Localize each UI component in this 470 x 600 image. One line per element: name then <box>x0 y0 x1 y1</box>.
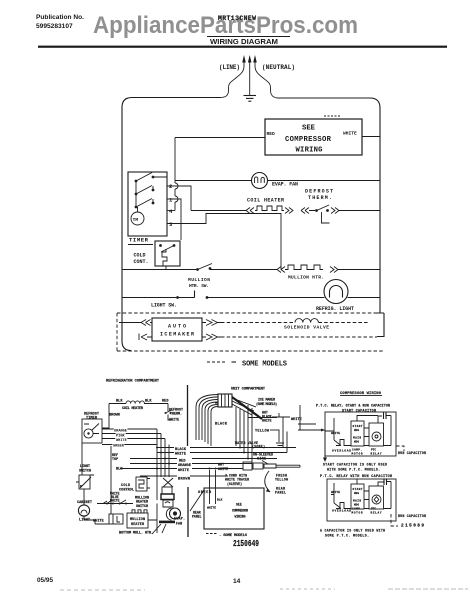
compressor box <box>265 119 362 155</box>
dashed wire to solenoid <box>221 322 294 324</box>
box2 run cap wire <box>391 514 398 526</box>
feed wire into panel <box>298 405 325 458</box>
connector out wires <box>232 398 256 464</box>
wire riser V1 with hops <box>175 138 178 211</box>
cabinet outline top/right border <box>279 98 380 313</box>
svg-text:START CAPACITOR IS ONLY USED: START CAPACITOR IS ONLY USED <box>323 462 387 466</box>
svg-text:PINK: PINK <box>116 435 125 439</box>
box1 wires <box>325 416 391 446</box>
svg-text:RED: RED <box>179 460 186 464</box>
svg-text:WDG: WDG <box>354 429 359 432</box>
mullion heater switch <box>188 264 212 290</box>
header publication number <box>36 14 84 30</box>
title overline <box>207 36 290 38</box>
lower light switch <box>76 465 94 489</box>
defrost timer box <box>82 413 102 444</box>
svg-text:REFRIG. LIGHT: REFRIG. LIGHT <box>316 306 354 312</box>
svg-text:BLK: BLK <box>145 400 152 404</box>
some-models dashed box <box>117 313 384 351</box>
terminal labels <box>169 183 173 228</box>
svg-text:2: 2 <box>169 183 173 190</box>
svg-text:EVAP.: EVAP. <box>174 518 185 522</box>
unsleeved wire note <box>253 453 273 465</box>
svg-text:WDG: WDG <box>354 441 359 444</box>
harness connector block <box>215 394 232 407</box>
svg-text:RELAY: RELAY <box>371 512 382 515</box>
box2 comp motor windings box <box>351 484 364 509</box>
svg-text:MULLION: MULLION <box>130 518 145 522</box>
timer box <box>128 172 167 236</box>
label stack red orange white <box>178 460 192 473</box>
label wire black white stack <box>262 411 272 423</box>
svg-text:WIRING: WIRING <box>235 515 246 519</box>
lower mullion heater box <box>127 510 148 528</box>
svg-text:14: 14 <box>233 578 241 585</box>
timer terminal 2 wire <box>167 186 191 211</box>
svg-text:PTC: PTC <box>371 449 376 452</box>
ground wire <box>248 55 252 95</box>
svg-text:2150649: 2150649 <box>233 539 259 549</box>
cold control box <box>155 241 180 266</box>
svg-text:TIMER: TIMER <box>129 237 149 244</box>
svg-text:COMP.: COMP. <box>352 508 362 511</box>
box1 ptc relay box <box>369 423 384 446</box>
panel title <box>340 392 382 396</box>
svg-text:COLD: COLD <box>134 253 146 259</box>
three cond note <box>225 474 249 486</box>
timer outlet wires <box>102 429 165 445</box>
line arrow L1 <box>220 55 246 98</box>
dash artifact above compressor box <box>324 115 340 117</box>
svg-text:LIGHT: LIGHT <box>79 519 91 523</box>
svg-text:CONT.: CONT. <box>134 259 149 265</box>
svg-text:THERM.: THERM. <box>308 195 332 201</box>
svg-text:ORANGE: ORANGE <box>178 464 192 468</box>
svg-text:WHITE: WHITE <box>207 507 216 510</box>
svg-text:(SOME): (SOME) <box>252 445 265 449</box>
svg-text:BLACK: BLACK <box>215 423 228 427</box>
wire white compressor to right border <box>362 136 380 138</box>
wire mesh rows <box>120 448 296 477</box>
svg-text:MULLION HTR.: MULLION HTR. <box>288 275 324 281</box>
svg-text:ICEMAKER: ICEMAKER <box>160 332 194 338</box>
box2 ptc relay box <box>369 486 384 509</box>
svg-text:P.T.C. RELAY WITH RUN CAPACITO: P.T.C. RELAY WITH RUN CAPACITOR <box>320 475 393 479</box>
box1 overload symbol <box>336 440 348 446</box>
svg-text:PTC: PTC <box>371 508 376 511</box>
svg-text:WHITE: WHITE <box>343 131 357 137</box>
svg-text:MAIN: MAIN <box>353 500 361 503</box>
box2 ptc relay label <box>371 508 382 515</box>
svg-text:MAIN: MAIN <box>353 437 361 440</box>
mullion heater resistor <box>277 265 338 281</box>
box2 wires <box>331 479 391 509</box>
svg-text:WIRE: WIRE <box>257 457 266 461</box>
svg-text:COIL HEATER: COIL HEATER <box>247 198 284 204</box>
svg-text:GREEN: GREEN <box>113 445 124 449</box>
svg-text:WHITE: WHITE <box>178 469 190 473</box>
note under box2 <box>320 528 385 537</box>
svg-text:COMPRESSOR: COMPRESSOR <box>232 509 248 513</box>
lower evap fan housing <box>161 478 174 507</box>
mullion heater row wire <box>122 269 380 271</box>
lower mullion heater switch <box>97 496 149 508</box>
label stack wht white <box>218 464 228 473</box>
harness black diagonal <box>232 397 262 419</box>
timer underline <box>128 244 153 246</box>
svg-text:THERM.: THERM. <box>170 413 182 417</box>
svg-text:WHITE: WHITE <box>116 439 128 443</box>
right bracket stubs <box>374 313 384 337</box>
svg-text:TOP: TOP <box>112 458 118 462</box>
svg-text:EVAP. FAN: EVAP. FAN <box>272 182 298 188</box>
svg-text:WHITE: WHITE <box>175 453 187 457</box>
box1 run cap wire <box>396 446 404 451</box>
yellow wire stub <box>270 429 279 431</box>
rear panel label right <box>275 487 286 495</box>
svg-text:RUN CAPACITOR: RUN CAPACITOR <box>398 514 426 518</box>
footer scan dotted line <box>60 589 468 590</box>
wire brown drop <box>102 404 109 429</box>
panel divider line lower <box>187 487 189 537</box>
svg-text:WHT: WHT <box>218 464 224 468</box>
svg-text:UNIT COMPARTMENT: UNIT COMPARTMENT <box>231 388 266 392</box>
svg-text:AUTO: AUTO <box>168 324 186 330</box>
svg-text:WHITE: WHITE <box>331 491 340 494</box>
svg-text:HEATER: HEATER <box>131 523 145 527</box>
coil heater resistor <box>246 198 293 214</box>
svg-text:COMPRESSOR: COMPRESSOR <box>285 136 332 144</box>
svg-text:TM: TM <box>133 217 139 223</box>
icemaker return arrows <box>202 334 221 340</box>
svg-text:CONTROL: CONTROL <box>119 488 134 492</box>
white wire stub <box>272 413 290 453</box>
lower compressor box <box>204 470 264 529</box>
junction dots <box>156 447 249 470</box>
ground symbol <box>244 96 257 102</box>
box1 comp motor windings box <box>351 421 364 446</box>
svg-text:WHITE: WHITE <box>291 418 303 422</box>
icemaker feed wire <box>119 322 141 324</box>
svg-text:RELAY: RELAY <box>371 453 382 456</box>
long vertical buses left <box>111 429 169 533</box>
svg-text:HTR. SW.: HTR. SW. <box>189 283 209 289</box>
svg-text:(NEUTRAL): (NEUTRAL) <box>262 64 295 71</box>
lower defrost therm <box>165 404 184 423</box>
svg-text:(LINE): (LINE) <box>219 64 240 71</box>
svg-text:RUN CAPACITOR: RUN CAPACITOR <box>398 451 426 455</box>
svg-text:WDG: WDG <box>354 504 359 507</box>
some models legend <box>207 361 287 369</box>
svg-text:1: 1 <box>169 197 173 204</box>
svg-text:WHITE: WHITE <box>331 432 340 435</box>
label cold cont <box>134 253 149 266</box>
svg-text:PANEL: PANEL <box>275 491 286 495</box>
mullion connector box <box>109 514 123 524</box>
water valve label <box>235 430 284 449</box>
svg-text:Publication No.: Publication No. <box>36 14 84 21</box>
lower coil heater resistor <box>126 401 144 404</box>
svg-text:WITH SOME P.T.C. MODELS.: WITH SOME P.T.C. MODELS. <box>327 467 380 471</box>
svg-text:SOLENOID VALVE: SOLENOID VALVE <box>284 325 329 331</box>
curved arrow <box>265 471 270 492</box>
lower cold control <box>119 477 150 492</box>
timer terminal 3 wire <box>167 214 281 270</box>
lower some models legend <box>206 534 248 538</box>
svg-text:BROWN: BROWN <box>109 414 120 418</box>
harness arcs <box>196 395 218 447</box>
svg-text:SWITCH: SWITCH <box>136 505 148 509</box>
rear panel diagonal <box>190 490 204 511</box>
svg-text:215089: 215089 <box>401 524 424 529</box>
svg-text:YELLOW: YELLOW <box>255 430 270 434</box>
svg-text:MULLION: MULLION <box>188 277 210 283</box>
svg-text:(SLEEVE): (SLEEVE) <box>227 482 242 486</box>
rear panel label <box>192 511 202 519</box>
svg-text:REFRIGERATOR COMPARTMENT: REFRIGERATOR COMPARTMENT <box>106 380 160 384</box>
svg-text:4: 4 <box>169 208 173 215</box>
svg-text:START: START <box>353 425 363 428</box>
icemaker label <box>256 399 277 406</box>
timer terminal 1 wire <box>167 199 181 240</box>
refrigerator light bulb <box>316 280 354 313</box>
auto icemaker box <box>152 318 202 341</box>
svg-text:BOTTOM MULL. HTR.: BOTTOM MULL. HTR. <box>119 532 153 536</box>
svg-text:BLACK: BLACK <box>175 448 187 452</box>
panel divider line upper <box>187 385 189 446</box>
box2 overload symbol <box>336 503 348 509</box>
box1 ptc relay label <box>371 449 382 456</box>
solenoid valve coil <box>284 319 329 331</box>
svg-text:YELLOW: YELLOW <box>275 478 288 482</box>
svg-text:SWITCH: SWITCH <box>79 469 91 473</box>
svg-text:3: 3 <box>169 221 173 228</box>
dashed wire solenoid to box edge <box>319 322 369 324</box>
svg-text:PANEL: PANEL <box>192 514 202 518</box>
svg-text:FAN: FAN <box>176 523 182 527</box>
label ref top <box>112 454 118 462</box>
svg-text:MOTOR: MOTOR <box>352 453 363 456</box>
evap fan wire <box>175 180 380 182</box>
label stack white blue white <box>110 492 120 503</box>
svg-text:WHITE: WHITE <box>262 419 272 423</box>
svg-text:DEFROST: DEFROST <box>305 189 333 195</box>
svg-text:RED: RED <box>267 131 276 137</box>
fresh yellow label <box>275 474 288 482</box>
lower evap fan motor <box>152 508 185 534</box>
icemaker feed arrow <box>141 320 152 326</box>
ptc box 2 <box>327 479 396 521</box>
svg-text:ORANGE: ORANGE <box>114 430 128 434</box>
svg-text:MOTOR: MOTOR <box>352 512 363 515</box>
svg-text:(SOME MODELS): (SOME MODELS) <box>256 402 277 406</box>
lower coil heater wire <box>109 403 168 405</box>
wire red compressor to timer riser <box>175 137 265 139</box>
svg-text:LIGHT SW.: LIGHT SW. <box>151 303 177 309</box>
svg-text:5995283107: 5995283107 <box>36 23 73 30</box>
svg-text:05/95: 05/95 <box>37 577 53 584</box>
svg-text:WDG: WDG <box>354 492 359 495</box>
svg-text:MRT13CNEW: MRT13CNEW <box>218 15 256 22</box>
svg-text:SEE: SEE <box>302 125 316 133</box>
cabinet light bulb <box>77 501 93 523</box>
evap fan motor <box>252 173 268 189</box>
coil heater wire <box>191 210 380 212</box>
icemaker return terminal <box>139 334 152 341</box>
svg-text:COLD: COLD <box>121 484 130 488</box>
svg-text:BROWN: BROWN <box>178 478 190 482</box>
icemaker out arrows row1 <box>202 320 221 326</box>
svg-text:SOME P.T.C. MODELS.: SOME P.T.C. MODELS. <box>325 534 369 538</box>
dashed return wire <box>221 336 377 338</box>
svg-text:SOME MODELS: SOME MODELS <box>242 361 287 369</box>
cold control drop wire <box>165 266 167 270</box>
header rule <box>38 46 447 48</box>
svg-text:RED: RED <box>162 400 169 404</box>
ptc box 1 <box>325 412 396 456</box>
svg-text:- SOME MODELS: - SOME MODELS <box>219 534 248 538</box>
svg-text:BLK: BLK <box>217 499 223 502</box>
left riser wires <box>82 443 109 524</box>
svg-text:A CAPACITOR IS ONLY USED WITH: A CAPACITOR IS ONLY USED WITH <box>320 528 385 532</box>
box2 run capacitor symbol <box>378 482 391 509</box>
svg-text:CABINET: CABINET <box>77 501 93 505</box>
svg-text:OVERLOAD: OVERLOAD <box>332 450 351 453</box>
svg-text:WIRING: WIRING <box>296 147 323 155</box>
label stack black white <box>175 448 187 457</box>
cabinet outline top/left border <box>122 98 220 351</box>
svg-text:P.T.C. RELAY, START & RUN CAPA: P.T.C. RELAY, START & RUN CAPACITOR <box>316 405 391 409</box>
svg-text:COIL HEATER: COIL HEATER <box>122 407 144 411</box>
defrost thermostat <box>301 189 339 224</box>
svg-text:BLK: BLK <box>116 400 123 404</box>
note under box1 <box>323 462 387 471</box>
refrigerator light row wire <box>122 297 380 299</box>
terminal strip <box>243 462 300 470</box>
timer terminal 4 wire <box>167 210 175 212</box>
svg-text:WHITE: WHITE <box>169 419 179 423</box>
svg-text:COMP.: COMP. <box>352 449 362 452</box>
svg-text:SEE: SEE <box>236 503 242 507</box>
light switch <box>151 291 208 309</box>
svg-text:START: START <box>353 488 363 491</box>
svg-text:OVERLOAD: OVERLOAD <box>332 510 351 513</box>
svg-text:WHITE: WHITE <box>218 468 228 472</box>
svg-text:START CAPACITOR: START CAPACITOR <box>342 410 377 414</box>
neutral arrow N <box>253 55 279 98</box>
box1 comp motor label <box>352 449 363 456</box>
svg-text:WIRING DIAGRAM: WIRING DIAGRAM <box>210 37 278 46</box>
box2 comp motor label <box>352 508 363 515</box>
box1 start capacitor symbol <box>378 416 391 446</box>
